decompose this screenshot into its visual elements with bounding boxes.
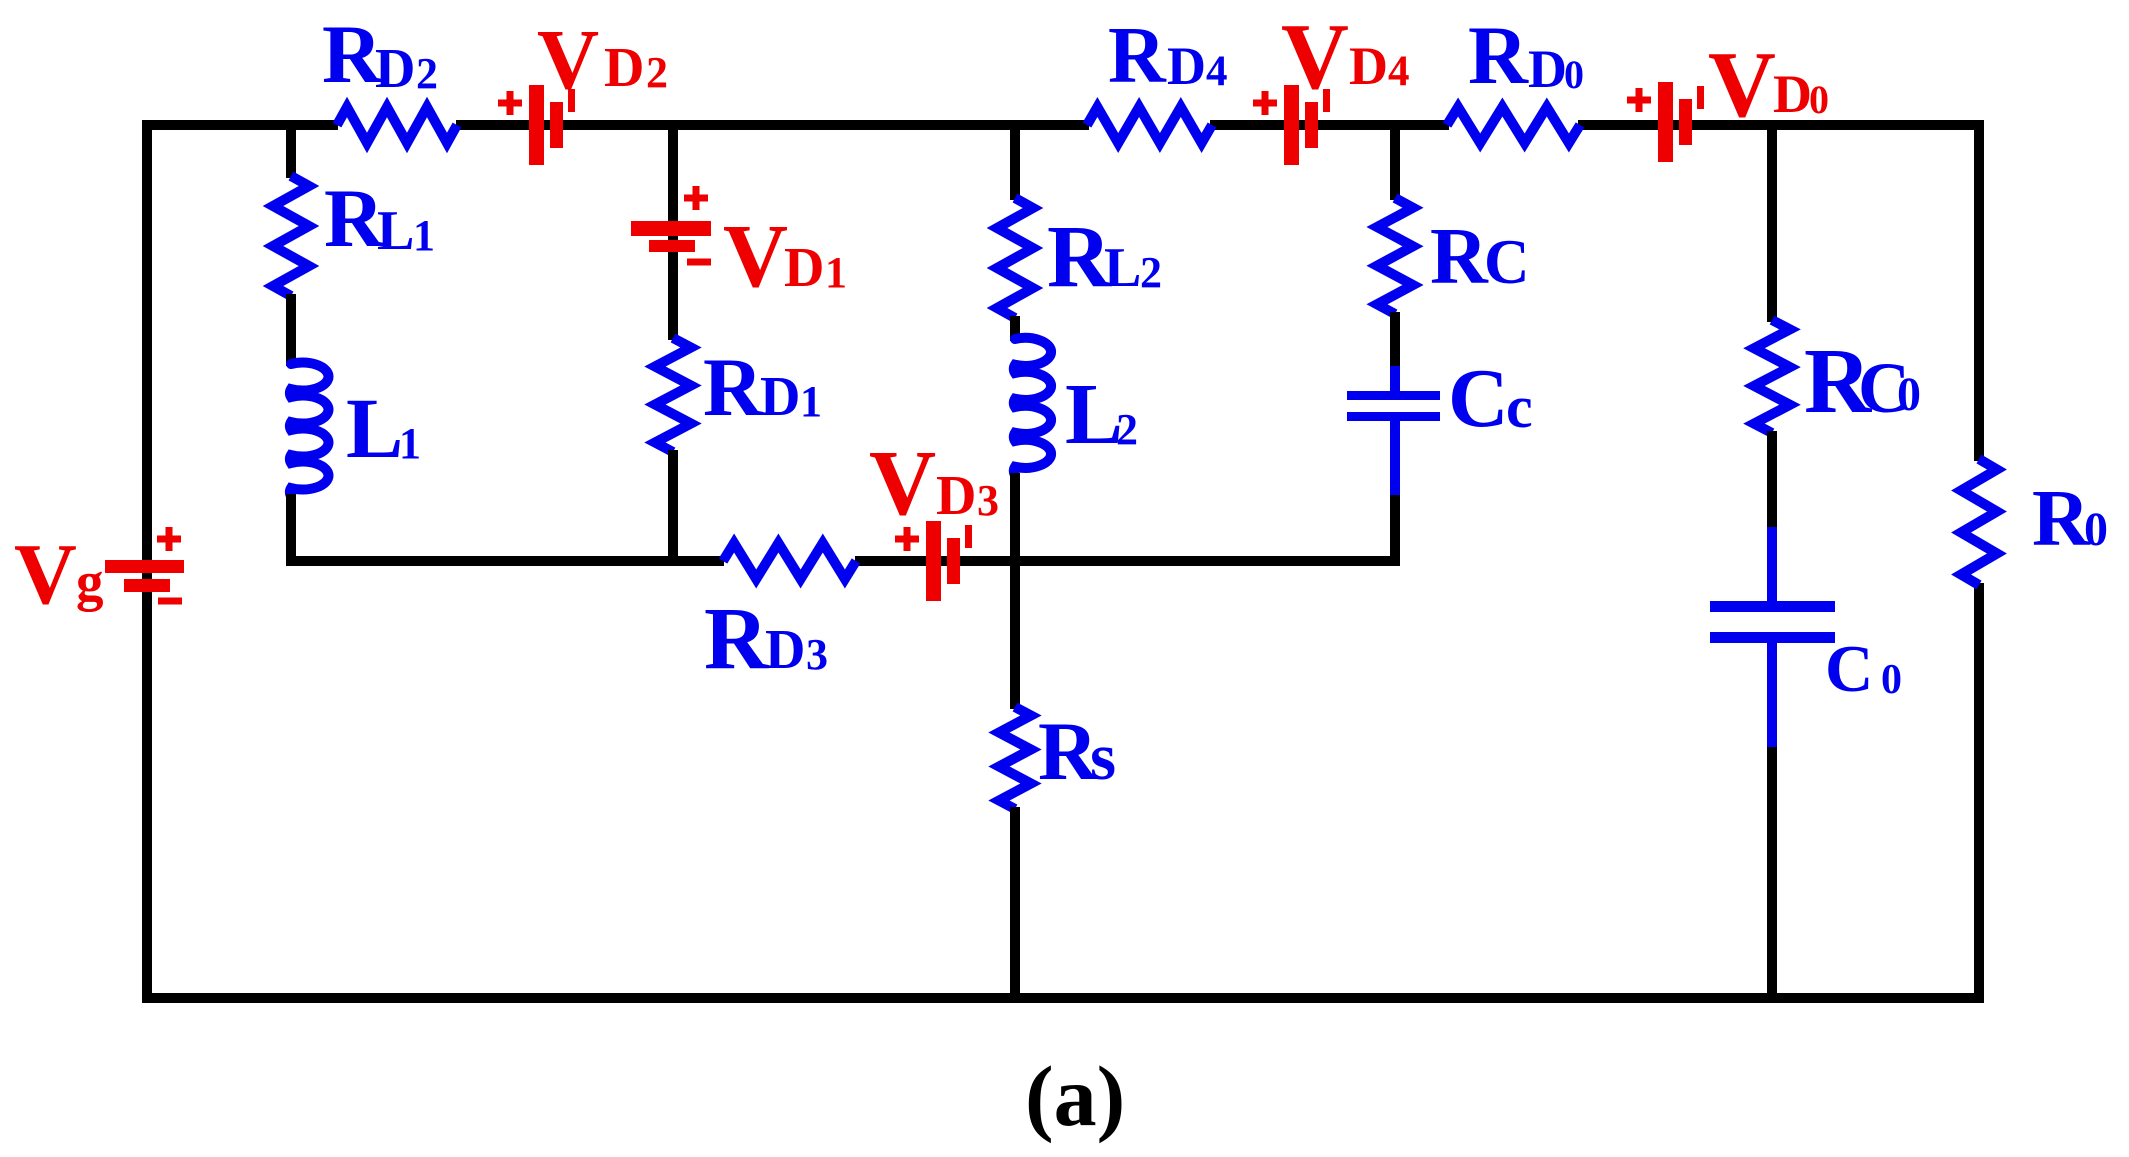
- svg-text:0: 0: [1881, 657, 1902, 703]
- svg-text:R: R: [1468, 9, 1529, 101]
- wire branch3 middle stub: [1010, 316, 1020, 341]
- label R_0: [2032, 475, 2108, 563]
- svg-text:V: V: [1281, 5, 1349, 109]
- resistor R_D0: [1447, 107, 1580, 143]
- svg-text:R: R: [703, 341, 764, 433]
- wire left border: [142, 120, 152, 1003]
- wire top rail segment 4: [1578, 120, 1984, 130]
- wire right border lower: [1974, 583, 1984, 1003]
- inductor L2: [1014, 338, 1051, 475]
- inductor L1: [290, 363, 329, 496]
- wire branch5 top stub: [1767, 125, 1777, 322]
- svg-text:R: R: [322, 8, 383, 100]
- wire C0 bottom lead: [1767, 643, 1777, 749]
- svg-text:(a): (a): [1025, 1048, 1125, 1144]
- label R_L1: [324, 172, 435, 264]
- wire top rail segment 3: [1210, 120, 1449, 130]
- svg-text:V: V: [1708, 33, 1776, 137]
- svg-text:0: 0: [2084, 503, 2108, 556]
- label R_D3: [704, 590, 828, 688]
- label V_D3: [869, 432, 999, 535]
- svg-text:L: L: [1104, 237, 1141, 299]
- svg-text:C: C: [1448, 352, 1509, 445]
- label V_D1: [723, 207, 847, 306]
- wire branch5 stub below R_C0: [1767, 431, 1777, 529]
- svg-text:L: L: [346, 380, 403, 476]
- svg-text:L: L: [1065, 365, 1123, 462]
- battery V_D1: [631, 186, 711, 266]
- svg-text:1: 1: [413, 211, 435, 260]
- wire branch5 bottom stub: [1767, 747, 1777, 998]
- label R_s: [1038, 705, 1116, 797]
- wire branch1 top stub: [286, 125, 296, 178]
- label (a) caption: [1025, 1048, 1125, 1144]
- wire Cc top lead: [1390, 366, 1400, 392]
- svg-text:L: L: [377, 200, 414, 262]
- svg-text:D: D: [1528, 39, 1567, 99]
- battery V_g: [105, 527, 184, 605]
- label R_D0: [1468, 9, 1584, 101]
- label R_D2: [322, 8, 438, 100]
- svg-text:D: D: [765, 619, 805, 681]
- svg-text:0: 0: [1897, 368, 1921, 421]
- wire branch4 bottom stub: [1390, 495, 1400, 561]
- wire right border upper: [1974, 120, 1984, 461]
- svg-text:2: 2: [416, 49, 438, 98]
- wire branch1 bottom stub: [286, 494, 296, 561]
- label L_2: [1065, 365, 1138, 462]
- svg-text:D: D: [1773, 64, 1812, 124]
- svg-text:2: 2: [1140, 248, 1162, 297]
- svg-text:D: D: [936, 465, 976, 527]
- svg-text:R: R: [1430, 213, 1489, 301]
- wire branch2 bottom stub: [668, 450, 678, 561]
- svg-text:g: g: [76, 551, 104, 612]
- resistor R_s: [999, 707, 1031, 809]
- label R_C0: [1804, 330, 1921, 433]
- svg-text:0: 0: [1809, 77, 1829, 122]
- label C_0: [1825, 632, 1902, 706]
- svg-text:2: 2: [646, 48, 668, 97]
- svg-text:V: V: [14, 525, 77, 622]
- wire branch4 stub below Rc: [1390, 312, 1400, 368]
- svg-text:D: D: [760, 366, 800, 428]
- label V_g: [14, 525, 104, 622]
- wire C0 top lead: [1767, 527, 1777, 602]
- label R_D4: [1108, 12, 1228, 100]
- wire bottom rail: [142, 993, 1984, 1003]
- label V_D4: [1281, 5, 1410, 109]
- battery V_D2: [498, 85, 575, 165]
- svg-text:3: 3: [806, 630, 828, 679]
- wire mid rail right segment: [855, 556, 1400, 566]
- wire top rail segment 2: [456, 120, 1089, 130]
- wire branch2 top stub: [668, 125, 678, 340]
- wire top rail left segment: [142, 120, 338, 130]
- svg-text:1: 1: [825, 248, 847, 297]
- wire mid rail left segment: [286, 556, 724, 566]
- svg-text:C: C: [1825, 632, 1873, 706]
- wire branch4 top stub: [1390, 125, 1400, 200]
- wire branch3 top stub: [1010, 125, 1020, 200]
- label Cc: [1448, 352, 1533, 445]
- resistor Rc: [1377, 198, 1413, 314]
- wire Cc bottom lead: [1390, 421, 1400, 497]
- battery V_D4: [1253, 85, 1330, 165]
- resistor R_L2: [997, 198, 1033, 318]
- label R_D1: [703, 341, 822, 433]
- resistor R_D2: [337, 107, 457, 143]
- svg-text:D: D: [375, 38, 415, 100]
- svg-text:R: R: [704, 590, 770, 688]
- resistor R_D1: [655, 338, 691, 452]
- wire branch1 middle stub: [286, 294, 296, 366]
- resistor R_L1: [273, 176, 309, 296]
- label V_D0: [1708, 33, 1829, 137]
- wire branch3 below mid rail: [1010, 561, 1020, 709]
- svg-text:D: D: [1167, 36, 1206, 96]
- battery V_D3: [895, 521, 972, 601]
- svg-text:4: 4: [1206, 48, 1228, 95]
- capacitor Cc: [1347, 391, 1440, 421]
- resistor R_D4: [1087, 107, 1212, 143]
- resistor R_0: [1961, 459, 1997, 585]
- svg-text:3: 3: [977, 476, 999, 525]
- wire branch3 bottom stub: [1010, 807, 1020, 998]
- svg-text:4: 4: [1388, 48, 1410, 95]
- svg-text:1: 1: [399, 419, 421, 468]
- svg-text:s: s: [1090, 720, 1116, 794]
- label R_L2: [1047, 208, 1162, 306]
- svg-text:D: D: [1349, 36, 1388, 96]
- wire branch3 lower stub: [1010, 473, 1020, 561]
- svg-text:R: R: [1108, 12, 1167, 100]
- svg-text:2: 2: [1116, 405, 1138, 454]
- svg-text:D: D: [604, 37, 644, 99]
- label L_1: [346, 380, 421, 476]
- svg-text:R: R: [2032, 475, 2091, 563]
- label Rc: [1430, 213, 1530, 301]
- svg-text:1: 1: [800, 377, 822, 426]
- svg-text:V: V: [723, 207, 788, 306]
- svg-text:V: V: [869, 432, 936, 535]
- svg-text:c: c: [1506, 374, 1533, 440]
- svg-text:0: 0: [1564, 52, 1584, 97]
- svg-text:C: C: [1484, 227, 1530, 297]
- capacitor C0: [1710, 601, 1835, 643]
- svg-text:D: D: [784, 237, 824, 299]
- svg-text:R: R: [324, 172, 385, 264]
- battery V_D0: [1627, 82, 1704, 162]
- resistor R_D3: [723, 543, 856, 579]
- svg-text:V: V: [537, 11, 599, 107]
- label V_D2: [537, 11, 668, 107]
- resistor R_C0: [1754, 320, 1790, 433]
